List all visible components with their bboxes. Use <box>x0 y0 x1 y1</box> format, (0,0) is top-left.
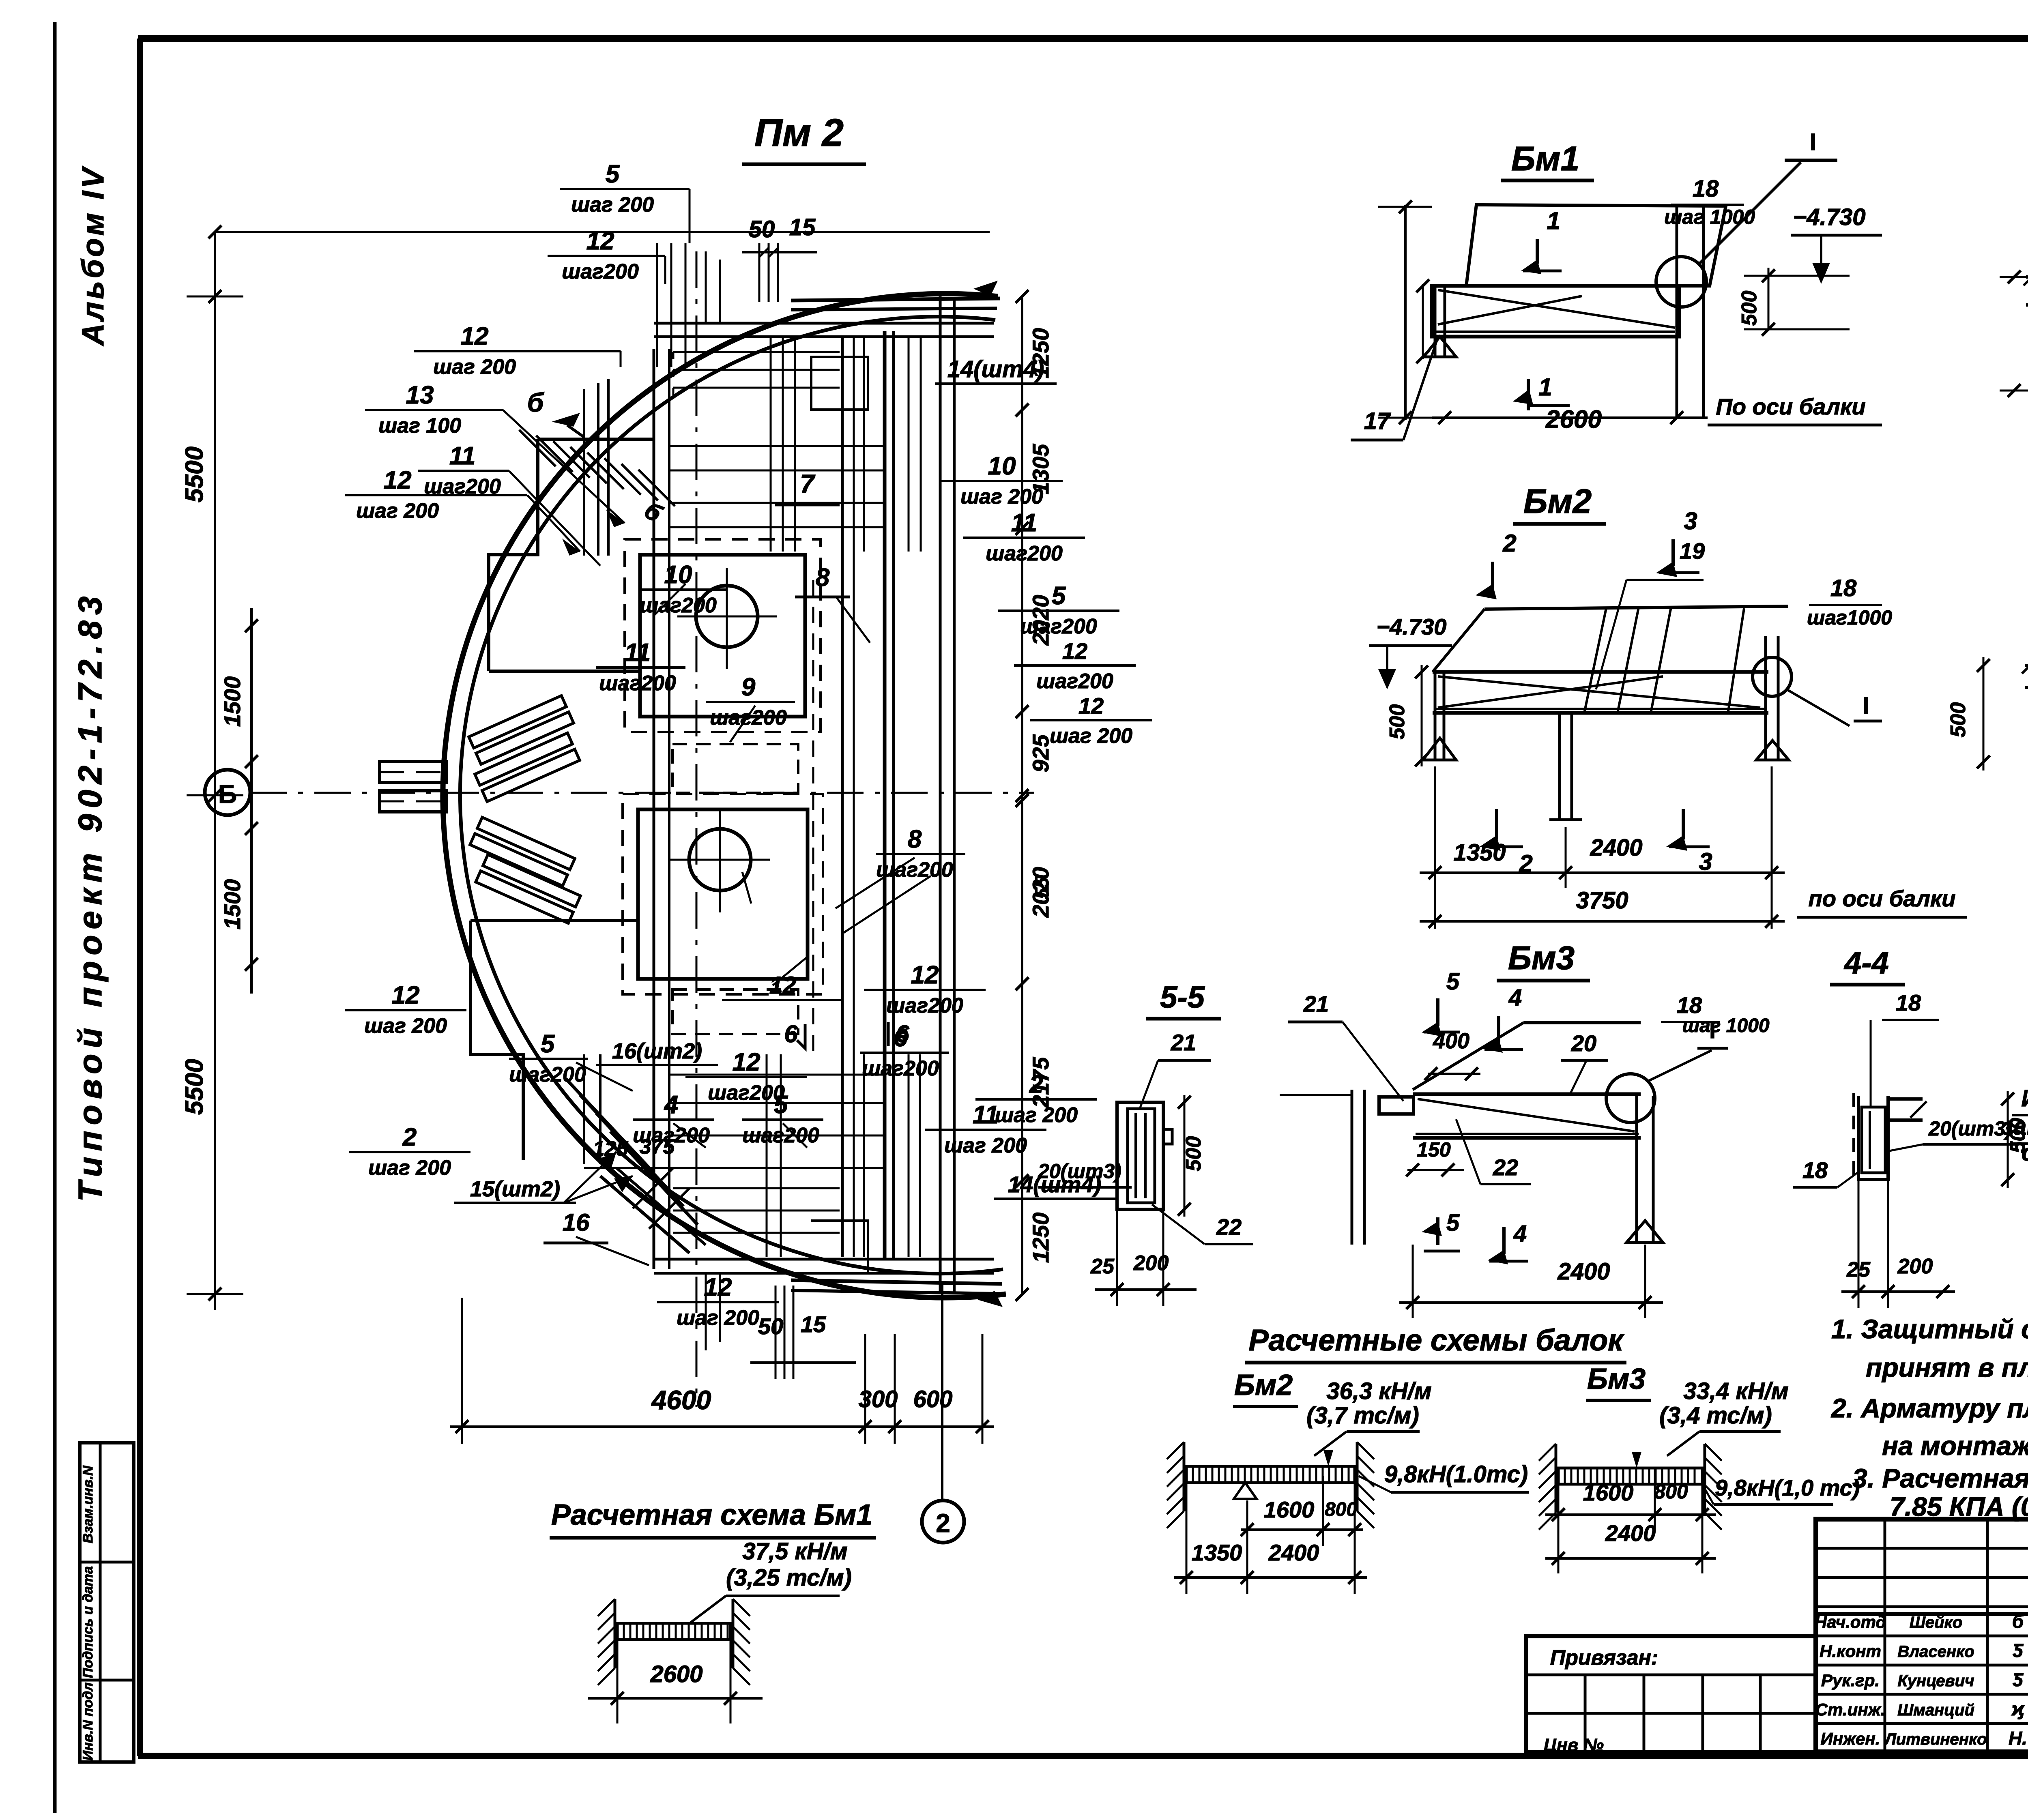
section 1-1 left marks <box>2000 270 2028 397</box>
svg-text:Инв.N подл: Инв.N подл <box>80 1683 96 1761</box>
svg-text:Ст.инж.: Ст.инж. <box>1815 1700 1885 1719</box>
svg-text:9,8кН(1.0тс): 9,8кН(1.0тс) <box>1384 1461 1528 1487</box>
svg-text:шаг200: шаг200 <box>562 260 639 283</box>
svg-text:9,8кН(1,0 тс): 9,8кН(1,0 тс) <box>1715 1475 1860 1500</box>
svg-text:Привязан:: Привязан: <box>1550 1646 1658 1670</box>
svg-text:шаг 200: шаг 200 <box>433 355 516 379</box>
svg-text:33,4 кН/м: 33,4 кН/м <box>1683 1378 1788 1404</box>
svg-text:1600: 1600 <box>1583 1480 1634 1505</box>
calc scheme Бм2 load labels <box>1306 1378 1431 1456</box>
svg-text:2400: 2400 <box>1605 1520 1656 1546</box>
svg-text:Ƽ: Ƽ <box>2013 1640 2024 1661</box>
svg-text:шаг 200: шаг 200 <box>571 193 654 217</box>
svg-text:шаг200: шаг200 <box>640 594 717 617</box>
title block left grid <box>1816 1519 2028 1752</box>
svg-text:Расчетная схема Бм1: Расчетная схема Бм1 <box>551 1499 872 1531</box>
svg-text:−4.730: −4.730 <box>1793 204 1865 230</box>
calc scheme Бм1 dims <box>588 1640 763 1723</box>
svg-text:25: 25 <box>1090 1255 1115 1278</box>
beam Бм2 mark 2 lower <box>1480 809 1533 877</box>
svg-text:Альбом IV: Альбом IV <box>76 165 110 346</box>
svg-text:шаг200: шаг200 <box>1036 670 1113 693</box>
svg-text:2: 2 <box>936 1509 950 1538</box>
svg-text:Изделие: Изделие <box>2021 1085 2028 1112</box>
beam Бм1 right dim 500 <box>1738 268 1850 336</box>
notes text <box>1830 1314 2028 1522</box>
svg-text:шаг200: шаг200 <box>599 672 676 695</box>
svg-text:По оси балки: По оси балки <box>1716 394 1865 419</box>
plan lower room wall <box>623 794 823 994</box>
section 4-4 title <box>1830 946 1905 985</box>
svg-text:500: 500 <box>1946 702 1970 738</box>
svg-text:21: 21 <box>1303 991 1329 1017</box>
svg-text:I: I <box>1810 129 1816 155</box>
svg-text:500: 500 <box>1182 1136 1205 1172</box>
beam Бм2 label 18 шаг1000 <box>1807 575 1892 629</box>
svg-text:1500: 1500 <box>219 676 245 727</box>
svg-text:2: 2 <box>1502 530 1516 557</box>
beam Бм3 right support <box>1626 1096 1663 1243</box>
calc scheme Бм3 label <box>1586 1363 1651 1400</box>
plan top rim <box>791 281 1000 310</box>
svg-text:5500: 5500 <box>180 446 208 502</box>
calc scheme Бм1 beam <box>598 1599 750 1685</box>
svg-text:2175: 2175 <box>1028 1057 1053 1108</box>
title block names <box>1815 1611 2027 1749</box>
svg-text:500: 500 <box>1386 704 1409 740</box>
plan horizontal pipes <box>380 762 446 812</box>
calc scheme Бм1 load labels <box>690 1538 852 1623</box>
svg-text:4: 4 <box>664 1091 678 1119</box>
svg-text:Шманций: Шманций <box>1897 1701 1974 1719</box>
axis marker Б <box>205 770 250 815</box>
svg-text:Взам.инв.N: Взам.инв.N <box>80 1465 96 1543</box>
svg-text:50: 50 <box>758 1313 783 1339</box>
svg-text:125: 125 <box>593 1137 629 1161</box>
svg-text:Бм2: Бм2 <box>1523 482 1592 520</box>
svg-text:11: 11 <box>1011 509 1037 537</box>
svg-text:19: 19 <box>1680 538 1705 564</box>
svg-text:1305: 1305 <box>1028 444 1053 494</box>
svg-text:22: 22 <box>1216 1214 1242 1240</box>
plan labels interior upper <box>596 469 840 730</box>
svg-text:1350: 1350 <box>1192 1540 1242 1565</box>
beam Бм3 plate <box>1413 1023 1641 1090</box>
svg-text:на монтаже между собой при: на монтаже между собой при их пересечени… <box>1882 1431 2028 1461</box>
beam Бм2 mark -4.730 <box>1369 614 1452 689</box>
sheet outer margin line <box>53 22 57 1813</box>
svg-text:7: 7 <box>800 469 816 498</box>
svg-text:2020: 2020 <box>1028 595 1053 646</box>
svg-text:шаг1000: шаг1000 <box>1807 606 1892 629</box>
beam Бм1 title <box>1501 140 1594 180</box>
calc scheme Бм2 reaction label <box>1359 1461 1529 1492</box>
svg-text:3: 3 <box>1699 848 1712 875</box>
svg-text:8: 8 <box>908 825 922 853</box>
svg-text:Бм2: Бм2 <box>1234 1369 1293 1401</box>
svg-text:шаг 200: шаг 200 <box>356 499 439 523</box>
plan bottom rim <box>791 1280 1003 1307</box>
beam Бм1 bottom dim <box>1432 394 1882 425</box>
beam Бм1 mark -4.730 <box>1791 204 1882 284</box>
svg-text:12: 12 <box>911 961 939 989</box>
svg-text:ϗ: ϗ <box>2011 1698 2025 1719</box>
svg-text:2. Арматуру плиты и стержни: 2. Арматуру плиты и стержни поз2 сварить <box>1830 1393 2028 1423</box>
svg-text:4600: 4600 <box>651 1385 711 1415</box>
svg-text:3: 3 <box>1684 507 1697 534</box>
svg-text:(3,25 тс/м): (3,25 тс/м) <box>726 1565 852 1591</box>
svg-text:50: 50 <box>749 216 775 243</box>
svg-text:4: 4 <box>1513 1221 1527 1247</box>
svg-text:шаг200: шаг200 <box>876 858 953 882</box>
svg-text:5-5: 5-5 <box>1160 980 1205 1015</box>
svg-text:9: 9 <box>741 673 756 701</box>
svg-text:1. Защитный слой бетона для: 1. Защитный слой бетона для рабочей арма… <box>1831 1314 2028 1344</box>
svg-text:800: 800 <box>1654 1480 1688 1503</box>
beam Бм2 title <box>1513 482 1606 524</box>
svg-text:36,3 кН/м: 36,3 кН/м <box>1326 1378 1431 1404</box>
plan labels top-left column <box>345 160 817 566</box>
svg-text:4: 4 <box>1508 985 1522 1011</box>
section 6-6 labels <box>2002 936 2028 1238</box>
svg-text:Цнв №: Цнв № <box>1544 1735 1604 1755</box>
svg-text:12: 12 <box>1078 693 1104 719</box>
beam Бм2 mark 3/19 upper <box>1596 507 1705 689</box>
svg-text:шаг200: шаг200 <box>742 1124 819 1147</box>
plan labels lower-left <box>345 981 1097 1379</box>
svg-text:5: 5 <box>1446 1210 1460 1236</box>
svg-text:−4.730: −4.730 <box>1377 614 1447 640</box>
section 4-4 body <box>1854 1093 1927 1183</box>
svg-text:Власенко: Власенко <box>1897 1643 1974 1661</box>
svg-text:шаг200: шаг200 <box>708 1081 785 1105</box>
sidebar text Альбом IV <box>76 165 110 346</box>
svg-text:5: 5 <box>1446 968 1460 995</box>
svg-text:Б: Б <box>218 779 237 809</box>
plan labels right column <box>722 356 1152 1199</box>
section 5-5 body <box>1117 1102 1172 1209</box>
svg-text:16: 16 <box>563 1209 590 1236</box>
svg-text:11: 11 <box>625 639 651 667</box>
svg-text:400: 400 <box>1433 1029 1469 1053</box>
svg-text:шаг 100: шаг 100 <box>378 414 461 438</box>
svg-text:12: 12 <box>384 466 412 494</box>
svg-text:3750: 3750 <box>1576 887 1628 914</box>
beam Бм2 mark 2 upper <box>1476 530 1517 599</box>
svg-text:шаг 1000: шаг 1000 <box>1664 206 1755 228</box>
axis marker 2 <box>922 1281 964 1543</box>
svg-text:шаг 200: шаг 200 <box>1050 724 1132 748</box>
svg-text:11: 11 <box>449 442 475 470</box>
sidebar stamp table <box>80 1443 134 1762</box>
beam Бм3 marks top <box>1288 968 1770 1101</box>
svg-text:17: 17 <box>1364 408 1391 434</box>
svg-text:375: 375 <box>640 1135 675 1159</box>
svg-text:12: 12 <box>704 1273 732 1301</box>
beam Бм1 right support <box>1677 205 1704 418</box>
svg-text:6: 6 <box>896 1020 909 1047</box>
svg-text:б: б <box>640 496 667 528</box>
beam Бм2 mark 3 lower <box>1666 809 1712 875</box>
svg-text:18: 18 <box>1830 575 1857 601</box>
svg-text:Бм1: Бм1 <box>1511 140 1579 178</box>
svg-text:Типовой проект 902-1-72.83: Типовой проект 902-1-72.83 <box>72 590 109 1202</box>
svg-text:шаг200: шаг200 <box>710 706 787 730</box>
beam Бм2 body <box>1433 607 1768 713</box>
calc scheme Бм3 load labels <box>1659 1378 1788 1456</box>
calc scheme Бм1 title <box>550 1499 876 1538</box>
plan left dimension 5500/5500 <box>180 225 998 1310</box>
beam Бм1 body <box>1432 286 1679 337</box>
beam Бм1 left dims <box>1378 200 1432 424</box>
beam Бм2 plate <box>1433 606 1788 714</box>
svg-text:стене: стене <box>2022 1140 2028 1166</box>
plan interior reinforcement lines <box>576 251 931 1350</box>
svg-text:шаг200: шаг200 <box>509 1063 586 1086</box>
svg-text:1: 1 <box>1547 207 1560 234</box>
svg-text:800: 800 <box>1325 1499 1357 1520</box>
calc scheme Бм3 reaction label <box>1702 1475 1860 1505</box>
plan right dimension chain <box>1016 290 1053 1301</box>
svg-text:2600: 2600 <box>1545 406 1602 434</box>
svg-text:5: 5 <box>1052 582 1066 610</box>
svg-text:1250: 1250 <box>1028 1213 1053 1263</box>
svg-text:закладное в: закладное в <box>2002 1114 2028 1140</box>
beam Бм2 dims 1350 2400 3750 <box>1420 766 1967 929</box>
title block inv number <box>1544 1735 1604 1755</box>
svg-text:2400: 2400 <box>1557 1258 1610 1285</box>
svg-text:12: 12 <box>769 972 797 999</box>
plan left chamber walls <box>470 379 653 1164</box>
section 5-5 labels <box>1038 1030 1253 1306</box>
svg-text:300: 300 <box>859 1386 898 1412</box>
svg-text:1250: 1250 <box>1028 328 1053 379</box>
svg-text:21: 21 <box>1171 1030 1196 1055</box>
plan right wall <box>842 296 954 1294</box>
svg-text:шаг 200: шаг 200 <box>944 1134 1027 1157</box>
svg-text:200: 200 <box>1897 1255 1933 1278</box>
svg-text:5: 5 <box>541 1030 555 1058</box>
svg-text:20(шт3): 20(шт3) <box>1928 1117 2012 1140</box>
svg-text:2600: 2600 <box>650 1661 702 1687</box>
plan central corridor walls <box>654 323 994 1273</box>
svg-text:Рук.гр.: Рук.гр. <box>1821 1671 1880 1690</box>
plan title Пм2 <box>742 111 866 164</box>
svg-text:15(шт2): 15(шт2) <box>470 1177 560 1201</box>
svg-text:13: 13 <box>406 381 434 409</box>
svg-text:4-4: 4-4 <box>1843 946 1889 980</box>
beam Бм3 title <box>1497 940 1590 981</box>
svg-text:Литвиненко: Литвиненко <box>1884 1730 1987 1748</box>
svg-text:18: 18 <box>1677 992 1702 1018</box>
svg-text:2400: 2400 <box>1268 1540 1319 1565</box>
beam Бм1 label 17 <box>1351 337 1438 440</box>
svg-text:Пм 2: Пм 2 <box>754 111 844 155</box>
plan upper room wall <box>625 539 821 732</box>
svg-text:55: 55 <box>1031 877 1053 899</box>
svg-text:Н.конт: Н.конт <box>1820 1642 1881 1661</box>
svg-text:18: 18 <box>1802 1157 1828 1183</box>
svg-text:5: 5 <box>774 1091 788 1119</box>
svg-text:б: б <box>527 387 545 417</box>
svg-text:Ƽ: Ƽ <box>2013 1669 2024 1690</box>
svg-text:12: 12 <box>461 322 489 350</box>
section 4-4 labels <box>1793 990 2028 1308</box>
title block privyazan box <box>1526 1636 1816 1752</box>
svg-text:150: 150 <box>1417 1138 1451 1161</box>
svg-text:Н.: Н. <box>2009 1728 2027 1749</box>
svg-text:12: 12 <box>392 981 420 1009</box>
svg-text:15: 15 <box>789 214 816 240</box>
svg-text:12: 12 <box>733 1048 760 1076</box>
svg-text:шаг200: шаг200 <box>862 1057 939 1080</box>
beam Бм3 body <box>1280 1090 1641 1245</box>
svg-text:500: 500 <box>1738 291 1761 326</box>
section 2-2 body <box>2022 657 2028 762</box>
beam Бм2 left support <box>1423 672 1456 760</box>
svg-text:2: 2 <box>402 1123 417 1151</box>
svg-text:(3,7 тс/м): (3,7 тс/м) <box>1306 1402 1419 1429</box>
plan lower room hole <box>670 811 770 912</box>
calc scheme Бм2 dims <box>1174 1476 1367 1594</box>
section 5-5 title <box>1146 980 1221 1019</box>
plan upper diagonal pipes <box>469 695 580 801</box>
svg-text:1350: 1350 <box>1453 839 1506 866</box>
svg-text:шаг 200: шаг 200 <box>677 1306 759 1330</box>
svg-text:Бм3: Бм3 <box>1587 1363 1646 1395</box>
beam Бм3 labels lower <box>1399 1119 1663 1318</box>
plan lower-left diagonal bars <box>566 1079 706 1253</box>
plan left dimension 1500/1500 <box>219 608 258 994</box>
svg-text:Бм3: Бм3 <box>1508 940 1575 977</box>
svg-text:шаг 200: шаг 200 <box>368 1156 451 1180</box>
svg-text:по оси балки: по оси балки <box>1808 886 1955 911</box>
svg-text:(3,4 тс/м): (3,4 тс/м) <box>1659 1402 1772 1429</box>
svg-text:шаг 1000: шаг 1000 <box>1682 1015 1769 1037</box>
calc scheme Бм2 label <box>1233 1369 1298 1406</box>
svg-text:22: 22 <box>1493 1155 1518 1180</box>
calc scheme Бм2 beam <box>1167 1442 1374 1528</box>
beam Бм3 detail circle <box>1606 1017 1728 1122</box>
calc scheme Бм3 beam <box>1539 1444 1722 1530</box>
svg-text:Шейко: Шейко <box>1910 1614 1963 1631</box>
beam Бм1 section mark 1 lower <box>1513 373 1602 434</box>
svg-text:2400: 2400 <box>1590 835 1642 861</box>
svg-text:925: 925 <box>1028 734 1053 772</box>
section 1-1 flange <box>2024 268 2028 305</box>
svg-text:3. Расчетная нагрузка на пл: 3. Расчетная нагрузка на плиту составляе… <box>1852 1463 2028 1493</box>
svg-text:600: 600 <box>913 1386 953 1412</box>
svg-text:5: 5 <box>606 160 620 188</box>
svg-text:15: 15 <box>801 1311 826 1337</box>
svg-text:Подпись и дата: Подпись и дата <box>80 1566 96 1678</box>
plan hatch upper wedge <box>519 430 675 506</box>
plan bottom dimension 4600/300/600 <box>215 1294 994 1444</box>
svg-text:б: б <box>2012 1611 2024 1632</box>
svg-text:1600: 1600 <box>1264 1497 1315 1522</box>
plan lower diagonal pipes <box>470 817 580 923</box>
calc scheme Бм3 dims <box>1545 1468 1716 1573</box>
svg-text:I: I <box>1863 693 1869 719</box>
svg-text:8: 8 <box>816 564 830 592</box>
svg-text:6: 6 <box>784 1020 798 1047</box>
beam Бм2 right support <box>1756 636 1789 760</box>
calc schemes title <box>1245 1323 1626 1363</box>
plan outer wall arc <box>443 294 1006 1298</box>
svg-text:Расчетные схемы балок: Расчетные схемы балок <box>1248 1323 1624 1357</box>
beam Бм2 detail circle <box>1753 657 1882 726</box>
plan axis centerlines <box>250 251 1034 1407</box>
title block frame <box>1816 1519 2028 1752</box>
svg-text:Инжен.: Инжен. <box>1821 1729 1880 1748</box>
svg-text:18: 18 <box>1896 990 1921 1015</box>
plan inner wall arc <box>460 317 1003 1274</box>
svg-text:10: 10 <box>664 561 692 589</box>
section 2-2 labels <box>1946 588 2028 864</box>
svg-text:шаг200: шаг200 <box>986 542 1063 565</box>
svg-text:1500: 1500 <box>219 879 245 930</box>
svg-text:20: 20 <box>1571 1030 1596 1056</box>
beam Бм1 left support <box>1424 286 1456 357</box>
beam Бм1 plate <box>1466 205 1726 286</box>
svg-text:37,5 кН/м: 37,5 кН/м <box>742 1538 847 1565</box>
svg-text:16(шт2): 16(шт2) <box>612 1039 702 1063</box>
beam Бм1 label 18 шаг1000 <box>1664 176 1755 228</box>
svg-text:Нач.отд: Нач.отд <box>1815 1612 1886 1631</box>
plan upper room hole <box>677 568 777 669</box>
beam Бм2 middle rib <box>1549 713 1582 820</box>
svg-text:шаг200: шаг200 <box>886 994 963 1017</box>
beam Бм2 left dim 500 <box>1386 665 1428 766</box>
svg-text:18: 18 <box>1693 176 1719 202</box>
sidebar text Типовой проект 902-1-72.83 <box>72 590 109 1202</box>
svg-text:Кунцевич: Кунцевич <box>1898 1672 1974 1690</box>
svg-text:1: 1 <box>1538 373 1552 401</box>
svg-text:10: 10 <box>988 452 1016 480</box>
svg-text:12: 12 <box>1062 638 1087 664</box>
svg-text:шаг 200: шаг 200 <box>364 1014 447 1038</box>
svg-text:5500: 5500 <box>180 1059 208 1115</box>
svg-text:принят в плите - 15 мм , в: принят в плите - 15 мм , в балках - 25мм <box>1866 1352 2028 1382</box>
svg-text:20(шт3): 20(шт3) <box>1038 1160 1121 1183</box>
beam Бм1 section mark 1 upper <box>1521 207 1562 274</box>
beam Бм1 detail circle <box>1656 129 1837 307</box>
